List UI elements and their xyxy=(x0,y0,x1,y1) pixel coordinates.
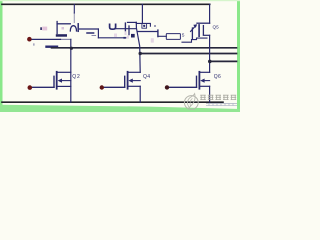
purple speck right of C3 xyxy=(125,32,127,36)
wire Q2 source down to rail xyxy=(70,72,72,102)
transformer T1 dot xyxy=(143,25,145,27)
wire Q4 gate lead xyxy=(104,86,125,88)
junction thickening on Q1 source wire xyxy=(123,37,125,39)
wire Q6 source down to rail xyxy=(209,86,211,102)
capacitor C1 plate xyxy=(87,32,94,34)
watermark text line 1 xyxy=(200,95,236,100)
wire Q4 source stub xyxy=(128,85,141,87)
capacitor C4 bar xyxy=(128,26,130,35)
transistor Q1 bar xyxy=(77,24,79,32)
transistor Q6 gate bar xyxy=(196,76,198,87)
wire Q2 drain stub xyxy=(57,71,71,73)
node junction dot phase A xyxy=(70,47,73,50)
green border left xyxy=(0,0,3,112)
node terminal dot input A xyxy=(27,37,32,42)
wire Q5 drain top xyxy=(197,22,210,24)
wire input node A xyxy=(32,38,61,40)
transistor Q6 arrowhead xyxy=(200,79,204,83)
transistor Q6 channel bar xyxy=(198,72,200,89)
wire B cluster top right xyxy=(136,23,150,26)
wire Q6 body arrow line xyxy=(203,80,210,82)
green border top xyxy=(0,0,240,1)
wire Q2 gate lead xyxy=(32,86,54,88)
wire Q4 drain stub xyxy=(128,71,141,73)
wire y31.5 xyxy=(138,31,158,33)
green border right xyxy=(237,0,240,112)
wire Q1 gate vertical xyxy=(56,22,58,34)
wire phase A column vertical xyxy=(70,39,72,72)
transistor Q4 arrowhead xyxy=(128,79,132,83)
node speck below input A xyxy=(33,44,35,45)
svg-text:Q6: Q6 xyxy=(214,74,221,80)
transistor Q5 ds bar xyxy=(202,26,204,35)
wire staircase Q5 gate xyxy=(182,38,207,42)
watermark text line 2 xyxy=(206,103,237,106)
diode D1 u-shape xyxy=(110,24,116,29)
wire Q6 source stub xyxy=(199,85,209,87)
resistor R2 dark body xyxy=(131,34,135,38)
wire phase B output line xyxy=(140,53,236,55)
transistor Q5 gate bar xyxy=(191,28,193,39)
wire from D1 to cluster xyxy=(116,28,137,30)
transistor Q5 channel bar xyxy=(198,25,200,36)
wire top rail V+ xyxy=(2,3,210,5)
wire Q4 source down to rail xyxy=(139,86,141,102)
purple smudge left of R5 xyxy=(151,38,154,42)
resistor R1 dark body xyxy=(56,34,67,37)
wire Q1 source to B cluster xyxy=(98,37,125,39)
wire Q5 source xyxy=(203,34,209,36)
capacitor C5 bar xyxy=(157,30,159,36)
label CR pink box xyxy=(42,27,47,31)
wire Q4 body arrow line xyxy=(131,80,140,82)
wire Q2 source stub xyxy=(57,85,71,87)
purple smudge below C4 xyxy=(127,36,129,39)
svg-text:Q5: Q5 xyxy=(213,24,220,29)
transistor Q5 arrowhead xyxy=(193,24,197,28)
node terminal dot Q4 gate xyxy=(100,85,104,89)
wire Q6 drain stub xyxy=(199,71,209,73)
capacitor C3 bar xyxy=(124,23,126,31)
transistor Q5 arrow diagonal xyxy=(191,26,196,31)
transistor Q2 channel bar xyxy=(56,72,58,89)
wire phase A output line xyxy=(52,47,237,49)
node terminal dot Q2 gate xyxy=(28,85,33,90)
transistor Q2 gate bar xyxy=(53,76,55,87)
wire thick dash on phase A xyxy=(47,46,58,48)
svg-text:Q2: Q2 xyxy=(72,74,80,80)
wire Q1 source corner down xyxy=(97,29,99,38)
label CR dark nub xyxy=(40,27,42,30)
transformer T1 box xyxy=(142,24,147,29)
wire phase C column vertical xyxy=(209,35,211,72)
wire drop top rail to Q5 drain xyxy=(209,4,211,23)
wire bottom rail GND xyxy=(2,101,223,103)
green border bottom band xyxy=(0,105,240,112)
transistor Q2 arrowhead xyxy=(58,79,62,83)
svg-text:Q4: Q4 xyxy=(143,74,150,80)
wire to resistor R5 xyxy=(159,35,167,37)
transistor Q4 gate bar xyxy=(124,76,126,87)
node speck right of T1 xyxy=(154,25,156,27)
node terminal dot Q6 gate xyxy=(165,85,169,89)
capacitor C1 plate2 xyxy=(92,35,96,37)
wire phase C output line xyxy=(210,60,237,62)
wire Q6 gate lead xyxy=(169,86,197,88)
watermark logo circle xyxy=(184,94,198,110)
node junction dot phase B xyxy=(139,52,142,55)
wire Q2 body arrow line xyxy=(60,80,71,82)
transistor Q4 channel bar xyxy=(127,72,129,89)
label purple speck near Q1 xyxy=(62,27,65,30)
wire B cluster corner vertical leaning xyxy=(136,22,140,72)
wire drop from top rail to Q3 cluster xyxy=(141,4,143,23)
resistor R5 body xyxy=(166,34,180,40)
node junction dot phase C xyxy=(208,60,212,64)
wire Q1 source horizontal xyxy=(80,28,99,30)
purple speck below D1 xyxy=(114,34,117,38)
wire drop from top rail to Q1 xyxy=(73,4,75,13)
wire Q1 top horizontal xyxy=(57,23,70,25)
inductor L1 hump of Q1 xyxy=(70,26,76,31)
svg-text:5: 5 xyxy=(182,32,185,37)
wire B cluster top left xyxy=(128,21,137,23)
